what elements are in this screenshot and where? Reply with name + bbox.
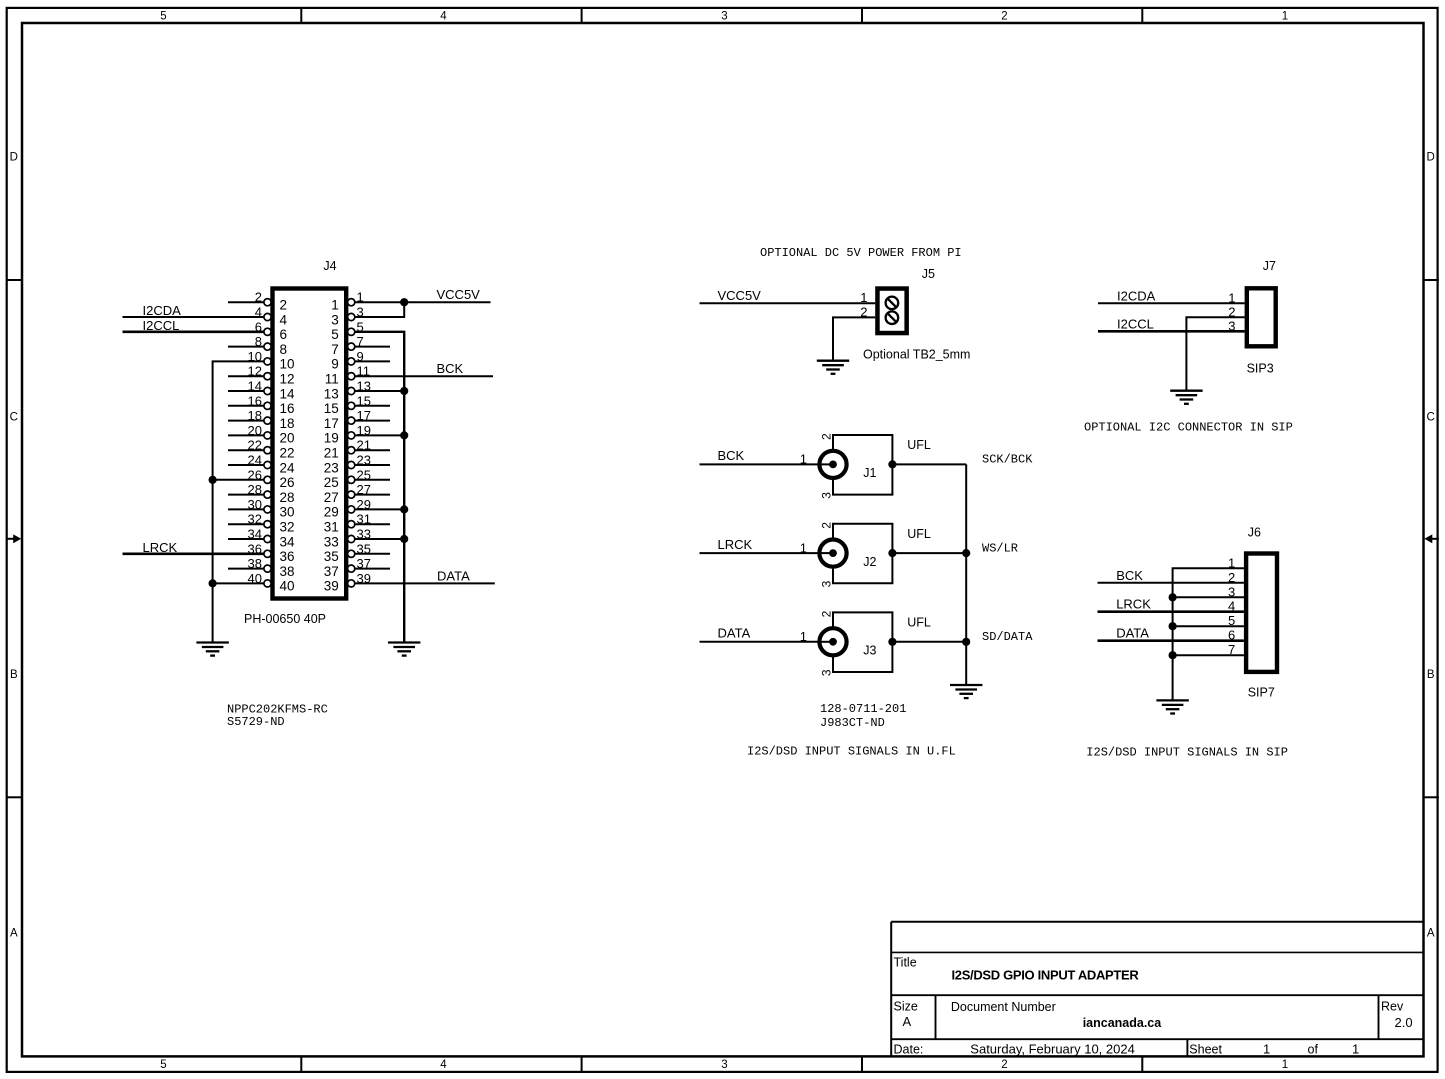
wire J6 pin 3 to bus [1173,596,1244,598]
svg-text:UFL: UFL [907,527,931,541]
wire J5 pin 2 to ground [833,317,875,360]
junction VCC5V / pin 3 [400,298,408,306]
svg-text:Title: Title [894,956,917,970]
svg-text:Rev: Rev [1381,1000,1404,1014]
connector J1 coax symbol [819,451,846,478]
svg-text:20: 20 [280,431,295,446]
svg-text:14: 14 [280,386,296,401]
ground J5 [817,361,849,374]
svg-text:DATA: DATA [718,626,751,641]
svg-text:1: 1 [800,629,807,644]
svg-text:J983CT-ND: J983CT-ND [820,716,885,730]
svg-text:I2S/DSD INPUT SIGNALS IN U.FL: I2S/DSD INPUT SIGNALS IN U.FL [747,745,956,759]
wire VCC5V to J5 pin 1 [700,302,876,304]
connector J6 body [1246,554,1277,672]
J5 screw terminal 2 [886,311,899,324]
svg-text:6: 6 [280,327,288,342]
junction J4 pin 33 / right bus [400,535,408,543]
svg-text:Optional TB2_5mm: Optional TB2_5mm [863,347,970,361]
wire I2CCL (J4 pin 6) [123,330,265,333]
svg-text:2: 2 [1001,1059,1007,1071]
svg-text:36: 36 [280,549,295,564]
svg-text:3: 3 [721,1059,727,1071]
wire J6 pin 7 to bus [1173,654,1244,656]
junction J2 shield [888,549,896,557]
svg-text:SCK/BCK: SCK/BCK [982,453,1033,467]
ground J7 [1170,391,1202,404]
wire DATA to J6 pin 6 [1098,639,1244,642]
svg-text:2: 2 [820,522,834,529]
wire J4 pin 33 to right bus [354,538,404,540]
svg-text:3: 3 [820,669,834,676]
svg-text:24: 24 [280,460,296,475]
svg-text:D: D [1427,151,1435,163]
svg-text:1: 1 [331,298,339,313]
wire LRCK (J4 pin 36) [123,552,265,555]
svg-text:Size: Size [894,1000,918,1014]
svg-text:17: 17 [324,416,339,431]
wire J6 pin 5 to bus [1173,625,1244,627]
border row labels left [10,151,18,939]
border row ticks left [7,280,22,797]
svg-text:9: 9 [331,357,339,372]
svg-text:D: D [10,151,18,163]
svg-text:Sheet: Sheet [1189,1043,1222,1057]
wire VCC5V (J4 pin 1) [354,301,490,303]
svg-text:8: 8 [280,342,288,357]
svg-text:32: 32 [280,520,295,535]
svg-text:28: 28 [280,490,295,505]
svg-text:26: 26 [280,475,295,490]
border column labels bottom [160,1059,1288,1071]
connector J5 body [877,289,906,334]
svg-text:2.0: 2.0 [1395,1015,1413,1030]
J2 shield bracket [833,524,892,584]
svg-text:3: 3 [820,492,834,499]
svg-text:2: 2 [820,610,834,617]
svg-text:4: 4 [280,312,288,327]
svg-text:LRCK: LRCK [718,537,753,552]
svg-text:5: 5 [160,1059,166,1071]
svg-text:1: 1 [1282,10,1288,22]
svg-text:J2: J2 [863,555,876,569]
wire I2CDA (J4 pin 4) [123,316,265,318]
svg-text:33: 33 [324,534,339,549]
svg-text:J7: J7 [1263,259,1276,273]
wire DATA to J3 pin 1 [700,641,834,643]
junction J3 shield [888,638,896,646]
wire J4 right unconnected pin stubs [354,347,390,569]
svg-text:1: 1 [860,290,867,305]
border row ticks right [1424,280,1439,797]
svg-text:LRCK: LRCK [143,540,178,555]
svg-text:39: 39 [324,579,339,594]
svg-text:1: 1 [1228,290,1235,305]
J6 pin numbers [1228,555,1235,657]
svg-text:1: 1 [1228,555,1235,570]
svg-text:I2CDA: I2CDA [1117,288,1156,303]
wire J3 shield to ground bus [892,641,966,643]
svg-text:40: 40 [280,579,295,594]
svg-text:1: 1 [1352,1042,1359,1057]
junction J4 pin 40 / left bus [209,579,217,587]
J4 inside pin names left [280,298,296,594]
wire J6 ground bus [1173,568,1244,700]
connector J2 coax symbol [819,540,846,567]
svg-text:PH-00650 40P: PH-00650 40P [244,612,326,626]
svg-text:2: 2 [1001,10,1007,22]
wire J4 right ground bus (pin 5) [354,332,404,643]
wire LRCK to J6 pin 4 [1098,610,1244,613]
wire J4 pin 29 to right bus [354,508,404,510]
junction J4 pin 26 / left bus [209,476,217,484]
svg-text:SIP3: SIP3 [1247,361,1274,375]
svg-text:30: 30 [280,505,295,520]
svg-text:35: 35 [324,549,339,564]
svg-text:A: A [903,1014,912,1029]
svg-text:VCC5V: VCC5V [437,287,481,302]
svg-text:10: 10 [280,357,295,372]
svg-text:SIP7: SIP7 [1248,685,1275,699]
svg-text:128-0711-201: 128-0711-201 [820,702,906,716]
svg-text:3: 3 [1228,584,1235,599]
svg-text:38: 38 [280,564,295,579]
wire J4 pin 40 to left bus [213,582,265,584]
svg-text:12: 12 [280,372,295,387]
J5 screw terminal 1 [886,297,899,310]
svg-text:J4: J4 [323,259,336,273]
svg-text:1: 1 [1263,1042,1270,1057]
junction UFL bus / J3 [962,638,970,646]
svg-text:3: 3 [721,10,727,22]
svg-text:15: 15 [324,401,339,416]
svg-text:4: 4 [1228,599,1235,614]
svg-text:I2S/DSD INPUT SIGNALS IN SIP: I2S/DSD INPUT SIGNALS IN SIP [1086,746,1288,760]
ground UFL bus [950,685,982,698]
svg-text:6: 6 [1228,628,1235,643]
svg-text:Date:: Date: [894,1043,924,1057]
svg-text:2: 2 [1228,570,1235,585]
connector J3 coax symbol [819,628,846,655]
svg-text:C: C [1427,411,1435,423]
svg-text:18: 18 [280,416,295,431]
svg-text:A: A [1427,927,1435,939]
wire J4 pin 3 up to VCC5V [354,302,404,317]
svg-text:16: 16 [280,401,295,416]
wire J2 shield to ground bus [892,552,966,554]
wire BCK to J6 pin 2 [1098,582,1244,584]
svg-text:I2S/DSD GPIO INPUT ADAPTER: I2S/DSD GPIO INPUT ADAPTER [952,968,1140,983]
svg-text:J3: J3 [863,644,876,658]
svg-text:1: 1 [800,452,807,467]
connector J4 body [273,289,347,599]
J4 inside pin names right [324,298,339,594]
svg-text:Document Number: Document Number [951,1000,1056,1014]
wire LRCK to J2 pin 1 [700,552,834,554]
wire DATA (J4 pin 39) [354,582,495,584]
svg-text:19: 19 [324,431,339,446]
svg-text:5: 5 [160,10,166,22]
junction J4 pin 19 / right bus [400,431,408,439]
svg-text:3: 3 [820,580,834,587]
ground J4 right bus [388,643,420,656]
svg-text:OPTIONAL I2C CONNECTOR IN SIP: OPTIONAL I2C CONNECTOR IN SIP [1084,421,1293,435]
svg-text:1: 1 [800,540,807,555]
svg-text:LRCK: LRCK [1116,597,1151,612]
svg-text:UFL: UFL [907,438,931,452]
svg-text:iancanada.ca: iancanada.ca [1083,1016,1163,1030]
junction J6 pin 3 / bus [1169,593,1177,601]
svg-text:B: B [1427,669,1435,681]
junction J4 pin 13 / right bus [400,387,408,395]
svg-text:5: 5 [331,327,339,342]
svg-text:A: A [10,927,18,939]
junction J6 pin 5 / bus [1169,622,1177,630]
wire J4 pin 26 to left bus [213,479,265,481]
svg-text:S5729-ND: S5729-ND [227,715,285,729]
border center arrow right [1424,534,1439,543]
svg-text:I2CDA: I2CDA [143,303,182,318]
svg-text:7: 7 [331,342,339,357]
svg-text:4: 4 [440,1059,447,1071]
svg-text:23: 23 [324,460,339,475]
svg-text:DATA: DATA [437,568,470,583]
svg-text:B: B [10,669,18,681]
svg-text:I2CCL: I2CCL [143,318,180,333]
svg-text:BCK: BCK [437,361,464,376]
svg-text:SD/DATA: SD/DATA [982,630,1033,644]
wire UFL ground bus [965,464,967,685]
svg-text:4: 4 [440,10,447,22]
svg-text:34: 34 [280,534,296,549]
svg-text:DATA: DATA [1116,626,1149,641]
J4 right pin circles [348,299,355,587]
svg-text:BCK: BCK [1116,568,1143,583]
svg-text:UFL: UFL [907,616,931,630]
svg-text:J6: J6 [1248,525,1261,539]
svg-text:3: 3 [331,312,339,327]
border column ticks bottom [301,1056,1142,1072]
svg-text:7: 7 [1228,642,1235,657]
svg-text:J5: J5 [922,267,935,281]
svg-text:2: 2 [1228,304,1235,319]
svg-text:VCC5V: VCC5V [718,288,762,303]
svg-text:2: 2 [280,298,288,313]
svg-text:5: 5 [1228,613,1235,628]
ground J6 [1156,700,1188,713]
svg-text:37: 37 [324,564,339,579]
border center arrow left [7,534,22,543]
wire BCK (J4 pin 11) [354,375,493,377]
J4 outside pin numbers right [357,290,371,586]
svg-text:31: 31 [324,520,339,535]
svg-text:13: 13 [324,386,339,401]
svg-text:29: 29 [324,505,339,520]
svg-text:WS/LR: WS/LR [982,541,1018,555]
svg-text:C: C [10,411,18,423]
svg-text:25: 25 [324,475,339,490]
svg-text:J1: J1 [863,466,876,480]
title block frame [891,922,1423,1056]
svg-text:2: 2 [820,433,834,440]
wire J7 pin 2 to ground [1186,317,1244,390]
J4 left pin circles [264,299,271,587]
wire BCK to J1 pin 1 [700,463,834,465]
junction J4 pin 29 / right bus [400,505,408,513]
svg-text:27: 27 [324,490,339,505]
svg-text:3: 3 [1228,318,1235,333]
ground J4 left bus [196,643,228,656]
border row labels right [1427,151,1435,939]
svg-text:BCK: BCK [718,448,745,463]
junction J6 pin 7 / bus [1169,651,1177,659]
border column labels top [160,10,1288,22]
svg-text:21: 21 [324,446,339,461]
svg-text:I2CCL: I2CCL [1117,316,1154,331]
svg-text:OPTIONAL DC 5V POWER FROM PI: OPTIONAL DC 5V POWER FROM PI [760,246,962,260]
J1 shield bracket [833,435,892,495]
wire J4 pin 13 to right bus [354,390,404,392]
svg-text:11: 11 [325,372,339,387]
wire I2CDA to J7 pin 1 [1098,302,1245,304]
junction UFL bus / J2 [962,549,970,557]
junction J1 shield [888,460,896,468]
connector J7 body [1247,288,1276,346]
svg-text:22: 22 [280,446,295,461]
border column ticks top [301,8,1142,23]
svg-text:Saturday, February 10, 2024: Saturday, February 10, 2024 [970,1042,1135,1057]
wire J4 left unconnected pin stubs [228,302,265,568]
J3 shield bracket [833,612,892,672]
svg-text:of: of [1308,1043,1319,1057]
J4 outside pin numbers left [248,290,262,586]
wire I2CCL to J7 pin 3 [1098,330,1245,333]
svg-text:1: 1 [1282,1059,1288,1071]
wire J4 pin 19 to right bus [354,434,404,436]
wire J1 shield to ground bus [892,463,966,465]
wire J4 left ground bus (pin 10) [213,361,265,642]
